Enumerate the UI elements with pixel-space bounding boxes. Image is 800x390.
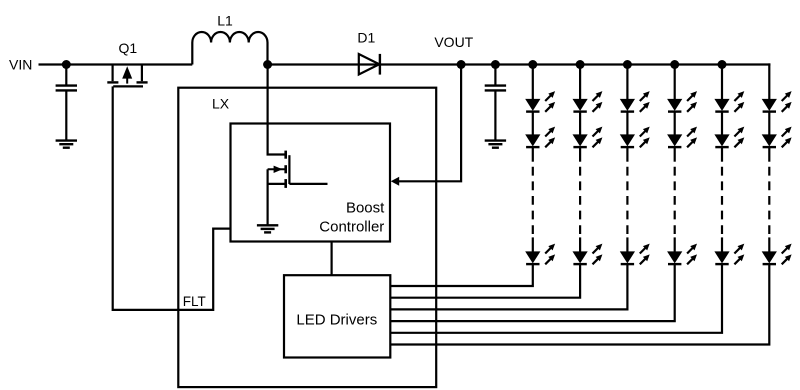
LED string 2 D3 [573,244,602,265]
arrowhead into boost controller [391,177,399,186]
wire string 5 seg4 [721,237,723,253]
wire LX to internal MOSFET drain [268,65,286,155]
wire VOUT feedback to boost controller [398,65,462,182]
wire string 1 dashed continuation [532,167,534,235]
wire string 5 seg3 [721,147,723,162]
wire LX node to output rail [268,63,771,65]
svg-text:L1: L1 [217,13,233,29]
wire string 4 seg4 [674,237,676,253]
junction string 2 tap [576,60,585,69]
IC boundary box [178,88,436,387]
inductor L1 [192,32,267,65]
LED Drivers box [284,275,390,357]
svg-text:Controller: Controller [319,218,384,235]
wire string 6 seg3 [768,147,770,162]
wire string 6 dashed continuation [768,167,770,235]
wire string 6 seg2 [768,112,770,136]
capacitor input C [65,65,67,86]
svg-text:VIN: VIN [9,56,32,72]
junction string 5 tap [718,60,727,69]
wire string 5 return to LED driver [390,264,722,333]
wire string 3 seg2 [626,112,628,136]
wire string 4 from rail [674,65,676,101]
capacitor output C [494,65,496,86]
LED string 1 D1 [526,91,555,112]
LED string 2 D1 [573,91,602,112]
junction string 3 tap [623,60,632,69]
svg-text:LX: LX [212,95,230,111]
wire VIN to inductor [39,63,193,65]
LED string 6 D2 [763,127,792,148]
wire string 1 seg2 [532,112,534,136]
junction string 1 tap [528,60,537,69]
LED string 4 D2 [668,127,697,148]
wire FLT from Q1 gate to controller [113,86,231,310]
transistor internal MOSFET [268,151,290,188]
svg-text:D1: D1 [357,29,375,45]
LED string 1 D2 [526,127,555,148]
svg-text:LED Drivers: LED Drivers [296,311,377,328]
wire string 6 seg4 [768,237,770,253]
LED string 5 D2 [715,127,744,148]
wire string 3 from rail [626,65,628,101]
svg-text:Boost: Boost [346,200,385,217]
LED string 5 D1 [715,91,744,112]
junction LX node [263,60,272,69]
wire string 6 return to LED driver [390,264,769,344]
wire string 3 seg4 [626,237,628,253]
op-amp block Boost Controller box [231,124,391,242]
wire boost controller to LED drivers [331,242,333,276]
wire string 2 dashed continuation [579,167,581,235]
LED string 6 D1 [763,91,792,112]
LED string 3 D3 [621,244,650,265]
junction VOUT node [457,60,466,69]
wire string 2 return to LED driver [390,264,580,298]
wire MOSFET source to ground [267,169,269,225]
LED string 5 D3 [715,244,744,265]
wire string 5 from rail [721,65,723,101]
wire string 2 seg4 [579,237,581,253]
svg-text:FLT: FLT [183,294,206,309]
wire string 4 return to LED driver [390,264,674,321]
ground internal [257,224,278,226]
ground input cap [0,0,1,1]
LED string 2 D2 [573,127,602,148]
wire string 1 seg4 [532,237,534,253]
junction output cap node [491,60,500,69]
wire string 3 seg3 [626,147,628,162]
svg-text:VOUT: VOUT [434,34,473,50]
LED string 3 D1 [621,91,650,112]
LED string 3 D2 [621,127,650,148]
wire string 5 dashed continuation [721,167,723,235]
wire string 6 from rail corner [768,63,770,100]
junction input cap node [62,60,71,69]
LED string 6 D3 [763,244,792,265]
junction string 4 tap [670,60,679,69]
wire string 1 seg3 [532,147,534,162]
wire string 2 seg2 [579,112,581,136]
wire string 2 from rail [579,65,581,101]
LED string 1 D3 [526,244,555,265]
diode D1 [359,54,380,75]
wire string 5 seg2 [721,112,723,136]
wire string 1 from rail [532,65,534,101]
wire string 1 return to LED driver [390,264,533,286]
wire string 4 seg2 [674,112,676,136]
wire string 3 dashed continuation [626,167,628,235]
transistor Q1 [107,65,147,87]
wire string 4 dashed continuation [674,167,676,235]
wire string 2 seg3 [579,147,581,162]
LED string 4 D3 [668,244,697,265]
wire string 3 return to LED driver [390,264,627,309]
wire MOSFET gate stub [289,183,327,185]
svg-text:Q1: Q1 [118,40,137,56]
wire string 4 seg3 [674,147,676,162]
LED string 4 D1 [668,91,697,112]
